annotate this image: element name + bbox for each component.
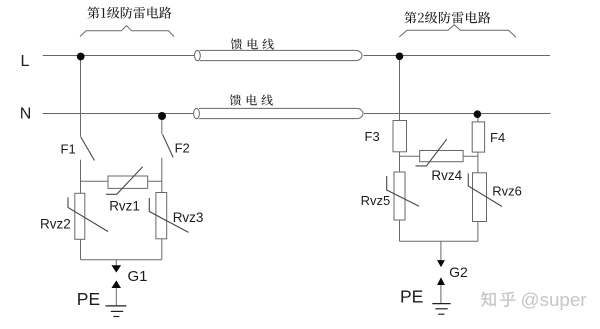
svg-text:Rvz1: Rvz1	[109, 199, 140, 214]
svg-text:PE: PE	[400, 287, 423, 307]
svg-text:Rvz6: Rvz6	[492, 184, 522, 199]
svg-text:Rvz5: Rvz5	[361, 193, 391, 208]
svg-text:Rvz4: Rvz4	[431, 168, 462, 183]
svg-text:@super: @super	[521, 289, 587, 310]
svg-text:G1: G1	[128, 268, 148, 285]
svg-text:Rvz3: Rvz3	[173, 210, 204, 225]
svg-text:N: N	[20, 105, 32, 122]
svg-text:G2: G2	[449, 264, 468, 280]
svg-text:F3: F3	[365, 129, 380, 144]
svg-text:Rvz2: Rvz2	[40, 216, 71, 231]
svg-text:F1: F1	[61, 142, 76, 157]
svg-text:F2: F2	[175, 140, 190, 155]
svg-text:PE: PE	[77, 289, 100, 309]
svg-text:F4: F4	[490, 130, 505, 145]
svg-text:L: L	[21, 53, 30, 70]
